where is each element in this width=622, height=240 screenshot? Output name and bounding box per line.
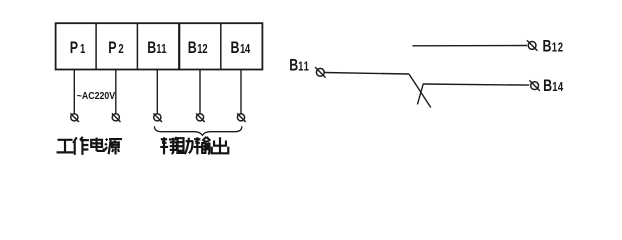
- svg-text:P: P: [70, 39, 78, 57]
- terminal circle B12: [196, 113, 205, 122]
- terminal circle B11: [153, 113, 162, 122]
- node B14 label: [543, 77, 564, 95]
- svg-text:2: 2: [558, 41, 563, 55]
- wire B11 down: [156, 70, 158, 114]
- node B12 label: [543, 38, 563, 56]
- svg-text:2: 2: [202, 43, 207, 57]
- svg-text:4: 4: [245, 43, 251, 57]
- svg-text:B: B: [289, 57, 298, 75]
- svg-text:1: 1: [80, 43, 86, 57]
- terminal B11: [315, 67, 326, 78]
- terminal B12: [527, 40, 538, 51]
- divider B11|B12: [178, 23, 180, 69]
- caption 工作电源: [57, 137, 123, 155]
- terminal circle P1: [70, 113, 79, 122]
- terminal B14: [529, 80, 540, 91]
- divider B12|B14: [220, 23, 222, 69]
- wire B11 to pivot: [324, 73, 409, 75]
- divider P1|P2: [95, 23, 97, 69]
- svg-text:B: B: [543, 77, 552, 95]
- char 作: [73, 137, 89, 155]
- svg-text:B: B: [543, 38, 552, 56]
- svg-text:4: 4: [558, 81, 564, 95]
- contact blade: [409, 74, 431, 108]
- svg-text:P: P: [108, 39, 116, 57]
- svg-text:B: B: [231, 39, 240, 57]
- divider P2|B11: [136, 23, 138, 69]
- label B12: [188, 39, 208, 57]
- wire to B14: [423, 84, 529, 85]
- svg-text:1: 1: [304, 60, 310, 74]
- wire P2 down: [115, 70, 117, 114]
- svg-text:B: B: [188, 39, 197, 57]
- node B11 label: [289, 57, 309, 75]
- label P1: [70, 39, 86, 57]
- brace auxiliary output: [154, 126, 241, 135]
- wire B12 down: [199, 70, 201, 114]
- terminal circle B14: [237, 113, 246, 122]
- terminal circle P2: [112, 113, 121, 122]
- svg-text:2: 2: [118, 43, 123, 57]
- char 电: [91, 137, 104, 151]
- svg-text:1: 1: [552, 41, 558, 55]
- svg-text:~AC220V: ~AC220V: [77, 89, 116, 101]
- label B14: [231, 39, 251, 57]
- wire B14 down: [240, 70, 242, 114]
- char 出: [212, 137, 229, 153]
- label ~AC220V: [77, 89, 116, 101]
- char 输: [194, 137, 211, 154]
- char 辅: [160, 137, 177, 154]
- char 源: [105, 139, 122, 155]
- B14 contact bend: [417, 84, 423, 105]
- char 助: [176, 138, 193, 154]
- terminal block outline: [56, 23, 263, 69]
- label B11: [147, 39, 167, 57]
- svg-text:1: 1: [161, 43, 167, 57]
- char 工: [57, 140, 74, 153]
- label P2: [108, 39, 123, 57]
- wire B12: [412, 45, 527, 47]
- caption 辅助输出: [160, 137, 228, 154]
- svg-text:B: B: [147, 39, 156, 57]
- wire P1 down: [73, 70, 75, 114]
